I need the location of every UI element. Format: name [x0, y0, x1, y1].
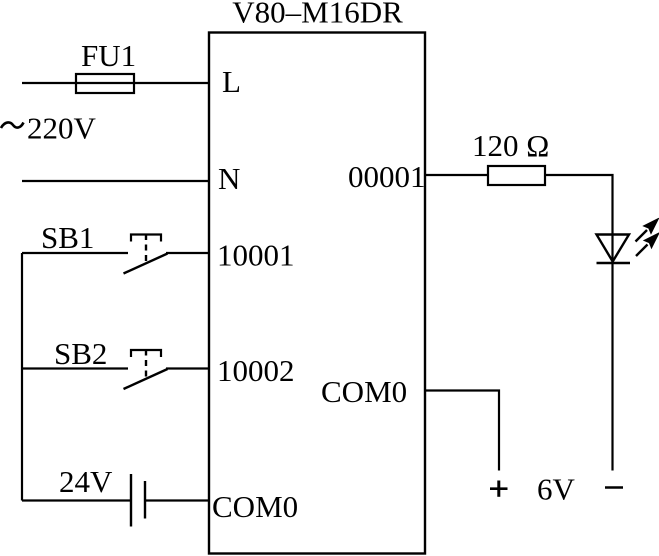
switch SB1 plunger cap — [131, 235, 161, 242]
wire L phase — [22, 82, 209, 84]
LED VL anode triangle — [597, 235, 630, 262]
wire resistor to LED top corner and through LED down to minus terminal — [545, 175, 613, 471]
label ~220V tilde — [1, 122, 24, 128]
resistor R1 120 ohm — [488, 166, 545, 185]
svg-text:10001: 10001 — [217, 238, 295, 273]
wire COM0 left segment to battery — [22, 499, 131, 501]
wire left bus vertical — [21, 253, 23, 501]
switch SB1 blade — [124, 254, 168, 274]
svg-text:COM0: COM0 — [212, 489, 298, 524]
wire input 10002 right segment — [166, 367, 209, 369]
svg-text:SB1: SB1 — [41, 220, 94, 255]
svg-text:COM0: COM0 — [321, 374, 407, 409]
wire input 10002 left segment — [22, 367, 128, 369]
svg-text:N: N — [218, 161, 240, 196]
svg-text:L: L — [222, 64, 241, 99]
svg-text:6V: 6V — [537, 472, 576, 507]
svg-text:120 Ω: 120 Ω — [472, 128, 549, 163]
wire input 10001 right segment — [166, 252, 209, 254]
svg-text:FU1: FU1 — [81, 38, 136, 73]
switch SB1 plunger stem (dashed) — [145, 234, 147, 264]
PLC box U1 V80-M16DR — [209, 33, 425, 554]
LED VL cathode bar — [597, 262, 631, 264]
wire N neutral — [22, 180, 209, 182]
svg-text:V80–M16DR: V80–M16DR — [232, 0, 403, 30]
label plus — [490, 481, 508, 497]
wire output 00001 to resistor — [425, 174, 488, 176]
battery BT1 short plate — [144, 481, 146, 519]
svg-text:24V: 24V — [59, 464, 113, 499]
switch SB2 plunger stem (dashed) — [145, 350, 147, 380]
battery BT1 long plate — [130, 474, 132, 527]
wire battery to COM0 pin — [145, 499, 209, 501]
switch SB2 plunger cap — [131, 350, 161, 357]
wire input 10001 left segment — [22, 252, 128, 254]
svg-text:10002: 10002 — [217, 353, 295, 388]
LED emission arrow upper — [636, 219, 659, 242]
switch SB2 blade — [124, 369, 168, 389]
svg-text:220V: 220V — [27, 111, 97, 146]
label minus — [605, 486, 623, 489]
svg-text:SB2: SB2 — [54, 336, 107, 371]
wire COM0 output to battery plus — [425, 391, 499, 471]
svg-text:00001: 00001 — [348, 159, 426, 194]
LED emission arrow lower — [636, 233, 659, 256]
fuse FU1 — [76, 74, 134, 93]
